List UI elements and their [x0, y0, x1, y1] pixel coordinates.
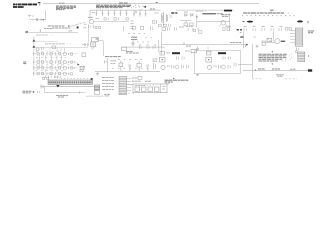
label under tick — [186, 45, 191, 47]
title line 1 — [13, 3, 41, 5]
component column x146 — [147, 64, 149, 71]
right box2 dot — [208, 59, 209, 60]
label on chassis wire 2 — [272, 68, 280, 70]
wire y10.1 right section — [176, 9, 234, 11]
U1 right pin wires — [127, 78, 132, 90]
wire y86.7 — [41, 86, 98, 88]
wire y47 mid — [122, 46, 165, 48]
capacitor pair on label wire — [38, 91, 40, 93]
part left end of wire — [41, 84, 43, 88]
wire vertical from title area — [45, 10, 47, 19]
resistor parts on wire y47 — [140, 46, 156, 49]
Q2 label right — [96, 18, 100, 20]
parts under J1 — [296, 48, 299, 53]
dashed vertical x208 — [207, 47, 209, 54]
tick scale row — [242, 15, 295, 17]
labels under wire y47 — [126, 52, 140, 54]
wire y21.5 — [197, 21, 230, 23]
wire down x103.2 — [102, 41, 104, 56]
wire y92.6 — [45, 92, 86, 94]
small box x138 y77 — [138, 77, 142, 80]
vertical x196.8 — [196, 14, 198, 27]
row 2 — [33, 61, 78, 63]
T1 side labels — [155, 12, 159, 14]
bottom view wire y96.1 — [86, 95, 104, 97]
connector J2 hatched — [298, 52, 305, 62]
wire y42.6 — [262, 42, 275, 44]
wire y32 — [28, 31, 78, 33]
labels above resistors — [139, 44, 156, 46]
right label rows y81-83 — [132, 80, 152, 82]
small box on wire — [52, 46, 56, 48]
parts under T1 — [159, 24, 171, 28]
wire x88.5 vertical — [88, 26, 90, 42]
component column x136 box — [137, 61, 141, 71]
wire y21.7 — [94, 21, 129, 23]
transistor Q4 right mid — [275, 39, 280, 44]
wire right of box1 — [98, 40, 103, 42]
marks in right cell — [162, 87, 165, 90]
extra cluster parts right — [69, 53, 75, 75]
wire into module — [127, 83, 134, 85]
grounds x255-260 — [256, 45, 259, 48]
vertical x107.5 — [107, 58, 109, 72]
wire y47.6 — [36, 47, 89, 49]
dark terminal end — [308, 69, 312, 71]
J2 side mark — [308, 55, 310, 57]
parts left of box2 — [82, 43, 89, 46]
dot above notes — [173, 78, 174, 79]
box1 inner mark — [96, 38, 98, 40]
label block left of line y32 — [25, 31, 28, 32]
labels top row mid — [179, 26, 185, 28]
gray bar label — [202, 13, 216, 14]
arrow right of label — [33, 91, 35, 93]
title line 2 — [13, 6, 24, 8]
transistor Q2 circle left cluster — [89, 20, 93, 24]
long wire y44.6 — [162, 44, 247, 46]
bottom notes text — [165, 80, 190, 82]
right regulator frame — [195, 51, 241, 74]
terminal strip TS1 — [48, 80, 93, 85]
note row near x48 y25 — [48, 25, 67, 27]
label above wire right — [230, 41, 242, 43]
IC connector U1 hatched — [119, 77, 127, 95]
vertical wire x273.5 — [273, 31, 275, 41]
right cell divider — [160, 84, 162, 93]
label row inside module — [135, 85, 154, 87]
parts list heading — [119, 2, 128, 4]
faint labels oscillator area — [112, 60, 150, 69]
parts x152-158 — [154, 63, 156, 70]
oscillator board label — [105, 56, 122, 58]
junction boxes right dark — [94, 85, 99, 90]
small parts top mid x84-100 y26-29 — [84, 26, 101, 28]
small ref mark — [156, 2, 158, 4]
top row small parts right quadrant — [244, 28, 291, 31]
main bus y10 — [90, 9, 161, 11]
labels x110-117 — [111, 61, 117, 64]
Q3 leads — [219, 25, 228, 27]
parts x222-232 y26-31 — [223, 26, 232, 30]
junction dot — [43, 19, 44, 20]
parts above strip — [43, 77, 49, 79]
boxes top row x193-206 — [193, 29, 202, 33]
Q6 label — [213, 65, 216, 67]
note text block A — [56, 6, 78, 10]
black bar label — [224, 10, 232, 12]
diodes D2 D3 — [184, 12, 193, 16]
revision arrow mark — [38, 2, 41, 3]
transformer T2 winding dark — [131, 37, 137, 40]
cluster faint label rows — [36, 51, 70, 70]
box left — [262, 41, 265, 45]
vertical drop x252.7 below wire — [252, 71, 254, 78]
tick on chassis wire — [255, 69, 257, 70]
label box mid — [191, 50, 197, 53]
crossover X wires — [169, 14, 173, 18]
row 1 — [33, 53, 78, 55]
hatch in junction box — [95, 86, 100, 89]
Q5 label — [167, 65, 170, 67]
node arrow 2 — [32, 45, 35, 47]
dark label right of T1 — [171, 12, 177, 14]
J1 pin wires — [290, 31, 295, 43]
text right of gray bar — [217, 13, 224, 15]
label above strip — [54, 76, 59, 78]
dot under YES — [270, 11, 273, 14]
oscillator block box1 — [92, 38, 99, 42]
cluster vertical interconnects — [40, 55, 62, 72]
top row small parts y26-31 mid — [162, 27, 198, 31]
Q2 labels — [88, 16, 94, 18]
ground GND mid — [196, 47, 199, 50]
small label above rule — [59, 2, 66, 4]
capacitor C1 — [36, 18, 37, 21]
wire y84.3 — [128, 83, 133, 85]
note text row C — [243, 12, 290, 14]
bus drop ticks — [100, 9, 142, 11]
bottom view label — [104, 94, 111, 96]
label above gray bar — [196, 10, 206, 12]
dot above notes D — [272, 51, 273, 52]
dark dot end of note — [68, 25, 69, 26]
dark mark end of note 2 — [77, 26, 79, 28]
small box x82 y53 — [82, 53, 85, 57]
circle part top right — [166, 80, 170, 84]
connector J1 hatched — [295, 28, 303, 46]
faint label row — [36, 34, 55, 36]
left regulator cluster top box — [160, 51, 164, 55]
label box under junction box — [95, 91, 100, 95]
right dark bar label — [218, 52, 226, 54]
speck left — [254, 36, 256, 38]
pin number dots above strip — [61, 77, 88, 79]
box with X — [267, 38, 272, 41]
label ticks — [167, 52, 171, 54]
vertical x158.8 — [158, 40, 160, 52]
box2 inner marks — [92, 43, 95, 45]
input coupling wire — [30, 19, 46, 21]
parts mid — [177, 56, 185, 59]
label YES — [270, 9, 274, 11]
label on bus left — [92, 12, 95, 14]
labels above top row right — [244, 26, 284, 28]
dark ellipse marker 2 — [297, 20, 303, 22]
chassis wire y70.7 — [243, 70, 312, 72]
left regulator box2 — [159, 57, 165, 62]
dot below notes D — [272, 63, 273, 64]
relay boxes row — [135, 87, 159, 91]
diode D1 rising — [70, 23, 87, 27]
component tick on wire — [183, 42, 185, 44]
ground under frame — [196, 74, 199, 76]
ticks under box2 — [92, 47, 94, 50]
vertical x229.5 — [229, 14, 231, 32]
notes block D right — [259, 54, 293, 61]
ground hash row under cluster — [45, 76, 60, 78]
faint labels mid band — [128, 34, 156, 42]
labels column x152-158 — [153, 59, 158, 61]
note row 2 — [52, 27, 75, 29]
mark right of ellipse 2 — [307, 21, 309, 23]
dark ellipse marker 1 — [243, 21, 245, 23]
dark dashes x236-242 — [237, 29, 243, 31]
dark tick right of strip — [91, 78, 93, 80]
node arrow 1 — [32, 39, 35, 41]
drop wires from y47.6 — [50, 48, 65, 52]
vertical x123.5 above — [123, 26, 125, 31]
oscillator block box2 — [91, 42, 96, 47]
parts right of Q1 — [42, 47, 44, 50]
wire at x88 down — [88, 24, 90, 26]
wire y20.2 — [180, 19, 192, 21]
vertical drop x44.5 — [44, 87, 46, 93]
transistor Q6 — [207, 65, 211, 69]
bus left vertical — [89, 10, 91, 21]
transformer T1 windings — [161, 12, 167, 26]
parts right of Q5 — [172, 65, 189, 69]
tick on wire y92.6 — [79, 92, 81, 94]
faint specks bottom right — [252, 78, 297, 80]
right label column x131 — [131, 21, 134, 29]
end dot of wire y44.6 — [246, 44, 248, 45]
right regulator box2 — [206, 57, 212, 62]
left column bus vertical — [33, 36, 35, 76]
label block right of J1 — [308, 31, 315, 33]
text under black bar — [221, 15, 232, 17]
fuse on wire — [39, 29, 41, 32]
transistor Q1 circle — [36, 48, 39, 51]
label right of wire — [69, 30, 73, 32]
antenna terminal — [28, 15, 34, 17]
component column x119 — [119, 61, 123, 71]
parts right of Q6 — [218, 62, 236, 68]
to-power label left — [23, 91, 33, 93]
part x243 y44 — [244, 45, 246, 48]
dark arrow on wire — [56, 85, 59, 87]
hanging capacitor bank 2 — [133, 10, 146, 17]
top horizontal rule — [43, 3, 259, 5]
label above bus right — [150, 8, 155, 10]
cap at x105 — [104, 60, 106, 63]
parts list text block B — [96, 5, 144, 8]
junction dot after parts list — [144, 6, 146, 8]
boxes under diodes — [184, 20, 193, 26]
outer module box — [133, 84, 167, 93]
tiny label block right of cluster — [80, 66, 86, 71]
left PCB cluster label NN — [23, 62, 26, 64]
right regulator top box — [207, 51, 211, 55]
specks under boxes row — [120, 92, 134, 94]
wire y71.6 — [95, 71, 160, 73]
note row SEE SERVICE — [45, 43, 74, 45]
transistor Q5 — [161, 65, 165, 69]
label under wire y92.6 — [56, 95, 70, 97]
vertical x252.3 — [251, 44, 253, 71]
vertical x161.7 — [161, 32, 163, 54]
faint wire y41.5 — [36, 41, 59, 43]
label under chassis wire — [276, 75, 284, 76]
component column x128 — [129, 64, 131, 71]
cluster parts under Q2 — [89, 25, 94, 29]
dark bar label L — [172, 52, 180, 54]
vertical x243.5 with part — [240, 32, 244, 45]
hanging capacitor bank 1 — [96, 10, 128, 16]
label left of box — [185, 50, 190, 52]
grounds under wire left — [96, 72, 99, 76]
junction dot on bus — [135, 12, 136, 13]
label on chassis wire 1 — [258, 68, 265, 70]
row 4 — [33, 73, 70, 75]
label above wire — [44, 28, 52, 30]
box on wire left — [122, 47, 127, 50]
capacitor C2 — [40, 19, 42, 21]
right label row y78 — [132, 77, 137, 79]
wire y64.3 to right — [238, 63, 252, 65]
box2 dot — [162, 59, 163, 60]
parts row above wire — [104, 17, 128, 20]
label on chassis wire 3 — [290, 68, 296, 70]
parts mid right — [223, 56, 231, 59]
parts left of T1 — [153, 20, 157, 24]
capacitor under T2 — [131, 41, 134, 47]
left PCB cluster rows — [33, 52, 78, 75]
screwdriver arrow — [77, 63, 79, 65]
part x132-136 y26 — [132, 26, 153, 31]
row 3 — [33, 67, 78, 69]
cap on x196.8 — [196, 15, 198, 18]
Q4 label dark dash — [281, 41, 285, 42]
U1 left labels — [102, 78, 117, 90]
transistor Q3 — [221, 21, 226, 26]
